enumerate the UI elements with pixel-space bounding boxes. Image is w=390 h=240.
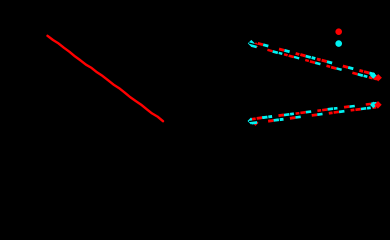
left plot red data line xyxy=(48,36,164,121)
right plot lower cyan dashed series xyxy=(252,103,377,123)
right plot upper red dashed series xyxy=(258,43,377,79)
right plot lower red dashed series xyxy=(252,104,378,121)
legend red dot xyxy=(335,28,342,35)
upper red series start marker xyxy=(253,42,259,48)
lower cyan series start marker xyxy=(248,118,255,125)
legend cyan dot xyxy=(335,40,342,47)
right plot upper cyan dashed series xyxy=(252,45,375,77)
lower red series end marker xyxy=(374,101,381,108)
lower red series start marker xyxy=(253,120,259,126)
upper red series end marker xyxy=(375,74,382,81)
upper pair dark core line xyxy=(249,43,372,76)
upper cyan series end marker xyxy=(370,72,377,79)
lower cyan series end marker xyxy=(370,102,377,109)
lower pair dark core line xyxy=(249,106,372,122)
upper cyan series start marker xyxy=(248,40,255,47)
